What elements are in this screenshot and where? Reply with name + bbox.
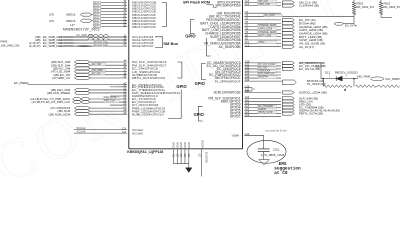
svg-text:EC_SMB_DA2: EC_SMB_DA2 [43, 44, 63, 48]
svg-text:PBTN_OUT#: PBTN_OUT# [258, 111, 273, 114]
svg-text:C511: C511 [273, 148, 280, 152]
svg-text:AC_IN (47): AC_IN (47) [299, 45, 314, 49]
svg-text:SM Bus: SM Bus [163, 41, 178, 46]
svg-text:PBTN_OUT#/GPIOC0: PBTN_OUT#/GPIOC0 [132, 76, 165, 80]
svg-text:GND: GND [183, 142, 187, 148]
svg-text:SPICS0#/GPIO63: SPICS0#/GPIO63 [215, 4, 240, 8]
svg-text:GND: GND [175, 142, 179, 148]
svg-text:AGND: AGND [200, 140, 204, 148]
svg-text:GND: GND [187, 142, 191, 148]
svg-text:KBO16: KBO16 [66, 13, 76, 17]
svg-text:GPIO: GPIO [176, 84, 187, 89]
svg-text:GC_INT#: GC_INT# [264, 14, 275, 17]
svg-text:112: 112 [245, 44, 250, 47]
svg-text:(37): (37) [49, 19, 54, 23]
svg-text:EC_PWEN: EC_PWEN [14, 81, 28, 85]
svg-text:GPIO: GPIO [185, 33, 196, 38]
svg-text:BK1608_0603: BK1608_0603 [94, 45, 109, 47]
svg-text:GPIO: GPIO [194, 112, 205, 117]
svg-text:GPXD7: GPXD7 [230, 115, 241, 119]
svg-text:GND: GND [172, 142, 176, 148]
svg-text:(2B) FAN_SPEED: (2B) FAN_SPEED [47, 91, 70, 95]
svg-text:(2B): (2B) [315, 64, 320, 68]
svg-text:KBC_PWM: KBC_PWM [357, 75, 370, 79]
svg-text:134: 134 [245, 90, 250, 93]
svg-text:PM1_CLK: PM1_CLK [104, 100, 115, 103]
svg-text:BATT_LOW: BATT_LOW [258, 34, 271, 37]
svg-text:FWH_CS#: FWH_CS# [258, 3, 270, 6]
svg-text:XCUA0: XCUA0 [77, 130, 86, 134]
svg-text:EC_ON: EC_ON [92, 72, 101, 75]
svg-text:XCUA2: XCUA2 [77, 126, 86, 130]
svg-text:SCRLCK#/GPIO1B: SCRLCK#/GPIO1B [213, 91, 240, 95]
svg-text:SCROLL_LED# (3B): SCROLL_LED# (3B) [299, 91, 327, 95]
svg-text:10K_0402_5%: 10K_0402_5% [1, 44, 20, 48]
svg-text:114: 114 [245, 3, 250, 6]
svg-text:ICH_PWROK: ICH_PWROK [386, 77, 400, 81]
svg-text:10K_0402_5%: 10K_0402_5% [356, 5, 375, 9]
svg-text:V18A: V18A [232, 133, 239, 137]
svg-text:MM8NSM01YZF_0603: MM8NSM01YZF_0603 [63, 28, 100, 32]
svg-text:121: 121 [122, 131, 127, 134]
svg-text:BKOFF#: BKOFF# [258, 76, 268, 79]
svg-text:(14,1B,37) EC_RX_PM0_CLK: (14,1B,37) EC_RX_PM0_CLK [31, 100, 70, 104]
svg-text:EC_SMB_CK1: EC_SMB_CK1 [77, 34, 94, 37]
svg-text:KBO17/GPIO33: KBO17/GPIO33 [132, 25, 156, 29]
svg-text:10K_0402_5%: 10K_0402_5% [383, 5, 400, 9]
svg-text:ECAGND: ECAGND [205, 152, 208, 163]
svg-text:(2,16,47): (2,16,47) [29, 44, 41, 48]
svg-text:GPIO: GPIO [195, 81, 206, 86]
svg-text:PL_OFF#/GPIOCF: PL_OFF#/GPIOCF [215, 79, 241, 83]
svg-text:CLKRUN# (36): CLKRUN# (36) [299, 4, 319, 8]
svg-text:EC_S3#: EC_S3# [92, 63, 102, 66]
svg-text:C: C [253, 88, 255, 91]
svg-text:4.7U_0805_10V#: 4.7U_0805_10V# [261, 153, 285, 157]
svg-text:NUMLOCK#/GPIO1A: NUMLOCK#/GPIO1A [132, 112, 165, 116]
svg-text:D12: D12 [325, 70, 331, 74]
svg-text:d: d [344, 88, 346, 92]
svg-text:ADS1: ADS1 [258, 41, 265, 44]
svg-text:116: 116 [245, 114, 250, 117]
svg-text:(2B) NUM_LED#: (2B) NUM_LED# [49, 112, 71, 116]
svg-text:EC_INT#: EC_INT# [345, 23, 357, 27]
svg-text:XCUA0: XCUA0 [132, 131, 143, 135]
svg-text:(37): (37) [49, 13, 54, 17]
svg-text:L47: L47 [70, 23, 75, 27]
svg-text:SDA2/GPIO47: SDA2/GPIO47 [132, 44, 154, 48]
svg-text:KB930QFA1_LQFP128: KB930QFA1_LQFP128 [127, 150, 163, 154]
svg-text:PBTN_OUT# (2B): PBTN_OUT# (2B) [299, 112, 323, 116]
svg-text:124: 124 [245, 133, 250, 136]
svg-text:no used at S-ver: no used at S-ver [266, 128, 287, 132]
svg-text:SPI Flash ROM: SPI Flash ROM [183, 1, 210, 5]
svg-text:KBO15: KBO15 [66, 19, 76, 23]
svg-text:AC_IN/GPIO5B: AC_IN/GPIO5B [219, 45, 241, 49]
svg-text:GND: GND [179, 142, 183, 148]
svg-text:(47) EBK_CA: (47) EBK_CA [52, 76, 70, 80]
svg-text:RB751V_SOD523: RB751V_SOD523 [335, 70, 358, 74]
svg-text:106: 106 [245, 79, 250, 82]
svg-text:at C8: at C8 [274, 171, 288, 176]
